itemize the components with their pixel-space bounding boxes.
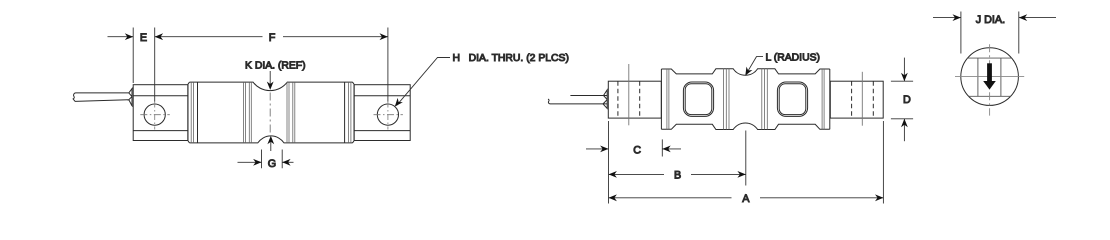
- svg-text:L (RADIUS): L (RADIUS): [766, 53, 820, 64]
- extension/center line at left hole: [154, 28, 156, 102]
- cable (top view): [548, 96, 604, 104]
- cable (side view): [73, 93, 129, 102]
- K DIA arrow down: [269, 71, 271, 85]
- svg-text:H DIA. THRU. (2 PLCS): H DIA. THRU. (2 PLCS): [453, 53, 569, 64]
- svg-text:C: C: [633, 144, 641, 156]
- top edge with neck curve: [190, 82, 353, 91]
- cable connector (top view): [603, 90, 607, 109]
- hole H left (side view): [140, 104, 170, 125]
- L leader: [746, 57, 763, 74]
- D arrows: [903, 58, 905, 82]
- left extension line (A/B/C): [608, 121, 610, 204]
- H leader: [397, 58, 451, 106]
- inner verticals: [978, 58, 1001, 96]
- svg-text:D: D: [903, 94, 911, 106]
- bottom edge with neck bump: [190, 136, 353, 143]
- center beam section (side view): [188, 82, 354, 143]
- left end block (side view): [133, 85, 188, 141]
- horizontal centerline: [955, 76, 1024, 78]
- hidden hole lines: [618, 81, 640, 118]
- left end boss (top view): [608, 64, 661, 125]
- horizontal chords: [968, 58, 1012, 96]
- svg-text:F: F: [269, 32, 276, 44]
- dim E arrow: [108, 36, 134, 38]
- neck ring lines right: [287, 82, 295, 143]
- C right extension line: [661, 139, 663, 156]
- flange4 verticals: [822, 69, 824, 129]
- J DIA dimension: [933, 12, 1056, 54]
- beam vertical centerline (side view): [269, 93, 271, 135]
- neck ring lines left: [243, 82, 251, 143]
- flange1 verticals: [667, 69, 669, 129]
- centerline: [628, 64, 630, 125]
- top profile: [661, 69, 829, 75]
- left edge: [660, 69, 662, 129]
- G arrows: [238, 161, 262, 163]
- cable connector / strain relief: [129, 88, 133, 107]
- flange3 verticals: [762, 69, 768, 130]
- pocket 2 (top view): [777, 82, 807, 116]
- D extension ticks: [891, 81, 913, 119]
- svg-text:K DIA. (REF): K DIA. (REF): [245, 60, 306, 71]
- main body outline (top view): [661, 69, 829, 130]
- circle: [961, 48, 1019, 106]
- K DIA arrow up: [270, 141, 272, 151]
- svg-text:B: B: [674, 170, 681, 182]
- B extension line (center): [745, 131, 747, 186]
- extension line E left: [132, 28, 134, 84]
- bottom profile: [661, 123, 829, 129]
- right cap: [352, 82, 354, 143]
- G extension lines: [262, 150, 283, 169]
- hole H right (side view): [374, 104, 403, 125]
- svg-text:A: A: [742, 193, 750, 205]
- extension/center line at right hole: [387, 28, 389, 102]
- dim F line: [155, 36, 388, 38]
- svg-text:E: E: [140, 32, 147, 44]
- svg-text:G: G: [268, 158, 276, 170]
- flange2 verticals: [724, 69, 730, 130]
- vertical centerline: [989, 44, 991, 115]
- pocket 1 (top view): [683, 82, 713, 116]
- left cap: [188, 82, 190, 143]
- C arrows: [586, 148, 609, 150]
- right end block (side view): [354, 85, 410, 141]
- svg-text:J DIA.: J DIA.: [976, 14, 1005, 26]
- load direction arrow (solid): [983, 63, 996, 89]
- right edge: [829, 69, 831, 129]
- B dimension: [609, 173, 746, 175]
- right end boss (top view): [830, 72, 883, 126]
- A dimension: [609, 197, 884, 199]
- right extension line (A): [882, 121, 884, 204]
